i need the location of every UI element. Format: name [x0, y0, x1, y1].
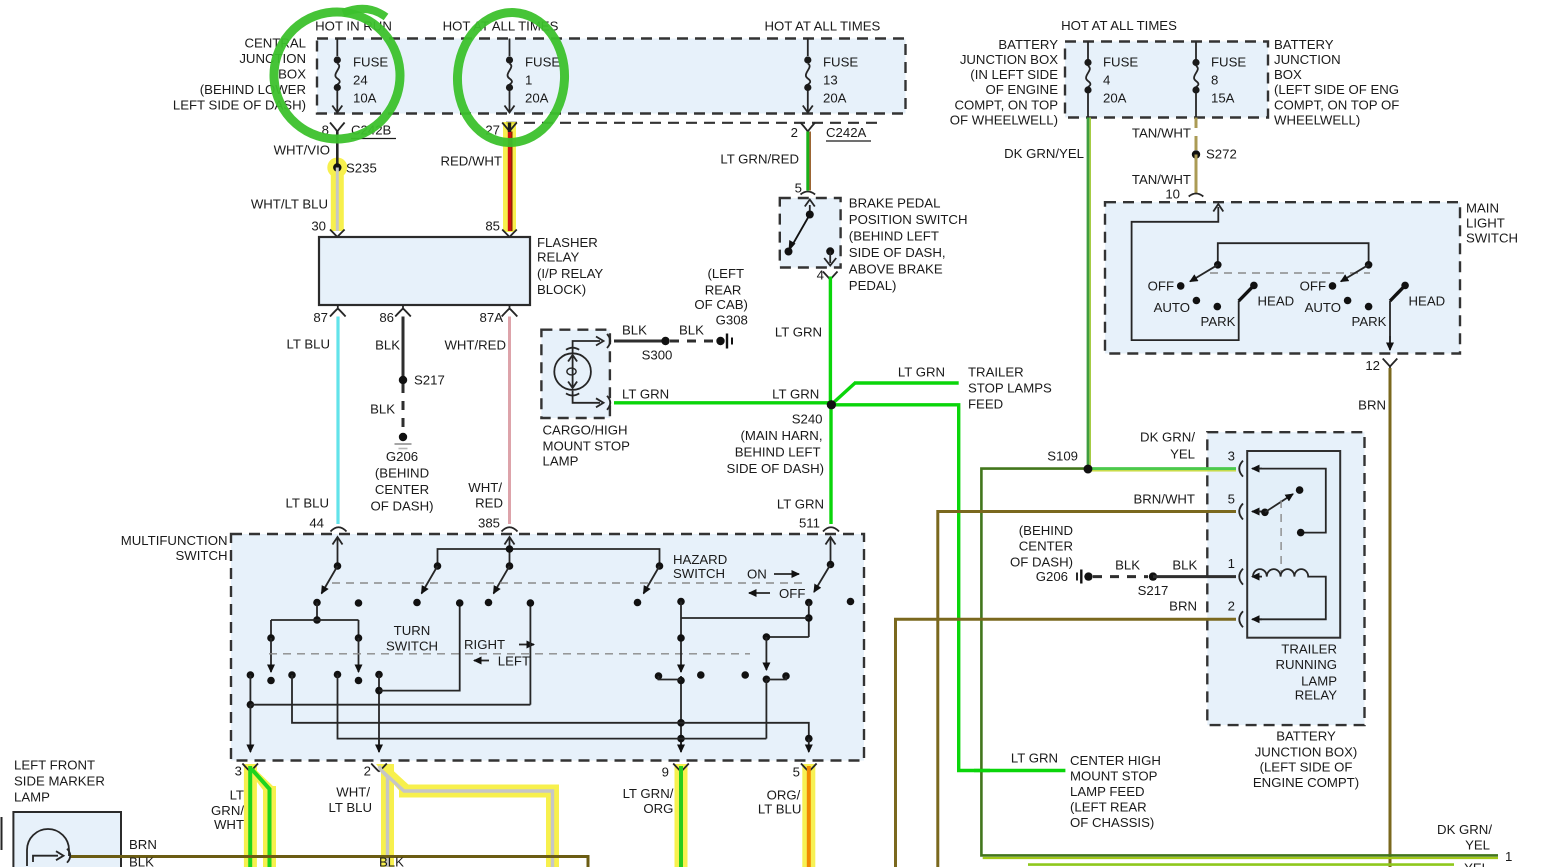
relay pin 2 connector — [1228, 599, 1262, 628]
svg-text:ORG: ORG — [643, 801, 673, 816]
MLS section 2 off blade — [1341, 261, 1373, 282]
MFS pin 3 drop with bus — [247, 599, 535, 752]
svg-text:BRN: BRN — [1169, 599, 1197, 614]
cargo/high mount stop lamp box — [541, 330, 610, 418]
splice dot S109 repaint — [1084, 465, 1093, 474]
svg-text:COMPT, ON TOP OF: COMPT, ON TOP OF — [1274, 98, 1399, 113]
svg-text:YEL: YEL — [1464, 861, 1489, 867]
svg-text:SWITCH: SWITCH — [175, 548, 227, 563]
svg-text:HEAD: HEAD — [1409, 294, 1446, 309]
splice S217 right — [1138, 572, 1169, 598]
MFS cross wire y738.6 — [338, 675, 767, 739]
svg-text:RUNNING: RUNNING — [1275, 657, 1337, 672]
svg-text:20A: 20A — [823, 91, 847, 106]
svg-text:(BEHIND LOWER: (BEHIND LOWER — [200, 82, 306, 97]
svg-text:ENGINE COMPT): ENGINE COMPT) — [1253, 775, 1359, 790]
MFS hazard drop x766 — [763, 637, 771, 739]
MFS contact dot far right — [847, 598, 855, 606]
svg-text:24: 24 — [353, 73, 368, 88]
svg-text:1: 1 — [525, 73, 532, 88]
MLS section 2 labels — [1300, 279, 1446, 329]
wire BLK S217 to G206 (dashed) — [370, 384, 403, 433]
svg-text:LAMP FEED: LAMP FEED — [1070, 784, 1145, 799]
svg-text:85: 85 — [485, 219, 500, 234]
side marker lamp symbol — [27, 829, 70, 866]
svg-text:44: 44 — [309, 516, 324, 531]
label RIGHT with arrow — [464, 637, 534, 652]
svg-text:LT GRN/RED: LT GRN/RED — [720, 152, 799, 167]
svg-text:BLK: BLK — [1172, 558, 1197, 573]
svg-text:FEED: FEED — [968, 397, 1003, 412]
wire WHT/LT BLU from pin 2 — [329, 766, 553, 867]
svg-text:LT: LT — [230, 788, 244, 803]
fuse 4 20A — [1084, 42, 1138, 118]
svg-text:S217: S217 — [1138, 583, 1169, 598]
svg-text:G308: G308 — [716, 312, 748, 327]
svg-text:AUTO: AUTO — [1154, 300, 1190, 315]
wire DK GRN/YEL S109 to relay pin 3 — [1088, 430, 1236, 471]
MFS node A to bus — [271, 603, 359, 624]
connector 27 — [485, 123, 516, 138]
wire BLK cargo lamp to S300 — [614, 323, 662, 342]
svg-text:12: 12 — [1365, 358, 1380, 373]
svg-text:LAMP: LAMP — [14, 790, 50, 805]
wire BLK S300 to G308 (dashed) — [670, 323, 714, 342]
label brake pedal position switch — [849, 196, 968, 294]
splice S109 — [1047, 449, 1092, 474]
splice S235 — [333, 161, 377, 176]
svg-text:LT GRN: LT GRN — [772, 387, 819, 402]
svg-text:OF DASH): OF DASH) — [370, 499, 433, 514]
yellow highlight on pin3 LT GRN/WHT wires — [244, 764, 276, 867]
svg-text:OFF: OFF — [1300, 279, 1326, 294]
cargo/high mount stop lamp bulb — [554, 334, 610, 410]
svg-text:OFF: OFF — [779, 586, 805, 601]
wire DK GRN/YEL S109 branch to trailer feed 1 — [981, 469, 1512, 864]
wire crossing patch LT GRN over DK GRN — [974, 769, 990, 772]
label central junction box — [173, 36, 306, 113]
svg-text:OF CHASSIS): OF CHASSIS) — [1070, 815, 1154, 830]
hand-drawn green circle around fuse 1 — [454, 10, 568, 145]
svg-text:LIGHT: LIGHT — [1466, 216, 1505, 231]
trailer running lamp relay inner body — [1247, 451, 1340, 638]
svg-text:HEAD: HEAD — [1258, 294, 1295, 309]
svg-text:JUNCTION: JUNCTION — [1274, 52, 1341, 67]
wire BLK S217 to relay pin 1 — [1153, 558, 1236, 577]
wire LT GRN/WHT from pin 3 — [211, 766, 269, 867]
svg-text:87: 87 — [313, 310, 328, 325]
central junction box outline — [317, 39, 906, 114]
svg-text:4: 4 — [1103, 73, 1110, 88]
trailer running lamp relay outer box — [1207, 432, 1364, 725]
label HOT AT ALL TIMES (fuse 13) — [764, 19, 880, 34]
MFS stub contacts right of x766 — [766, 672, 789, 680]
svg-text:(LEFT REAR: (LEFT REAR — [1070, 800, 1147, 815]
wire LT GRN/RED to brake switch pin 5 — [720, 132, 815, 196]
svg-text:WHT/LT BLU: WHT/LT BLU — [251, 197, 328, 212]
brake pedal position switch internals — [785, 200, 837, 266]
MFS turn blade C — [485, 562, 514, 606]
MLS section 2 head blade — [1390, 285, 1405, 301]
svg-text:MOUNT STOP: MOUNT STOP — [543, 439, 631, 454]
svg-text:SIDE MARKER: SIDE MARKER — [14, 774, 105, 789]
label battery junction box right — [1274, 37, 1399, 128]
svg-text:4: 4 — [817, 268, 824, 283]
relay switch blade — [1258, 486, 1303, 516]
wire BRN main light switch pin 12 down — [1358, 368, 1390, 867]
MFS contact dot right of blade A — [355, 599, 363, 607]
flasher relay box — [319, 237, 530, 305]
wire LT GRN S240 to MFS 511 — [777, 405, 839, 532]
svg-text:2: 2 — [791, 125, 798, 140]
MLS pin 10 entry arrow — [1132, 204, 1239, 340]
svg-text:LAMP: LAMP — [1301, 673, 1337, 688]
svg-text:86: 86 — [379, 310, 394, 325]
svg-text:HAZARD: HAZARD — [673, 552, 727, 567]
MFS left bus drop 2 — [355, 620, 363, 684]
svg-text:SWITCH: SWITCH — [1466, 231, 1518, 246]
svg-text:C242A: C242A — [826, 125, 867, 140]
svg-text:10: 10 — [1165, 187, 1180, 202]
label multifunction switch — [121, 533, 228, 563]
svg-text:FLASHER: FLASHER — [537, 235, 598, 250]
svg-text:S109: S109 — [1047, 449, 1078, 464]
fuse 24 10A — [332, 39, 388, 113]
wire BLK labels at bottom edge — [129, 855, 404, 867]
svg-text:FUSE: FUSE — [1211, 55, 1246, 70]
label HOT AT ALL TIMES (battery box) — [1061, 18, 1177, 33]
splice S300 — [642, 337, 673, 363]
svg-text:CARGO/HIGH: CARGO/HIGH — [543, 423, 628, 438]
wire WHT/VIO — [274, 132, 338, 165]
svg-text:TRAILER: TRAILER — [968, 365, 1024, 380]
fuse 13 20A — [803, 39, 859, 113]
wire LT GRN S240 to center high mount stop lamp feed — [831, 405, 1160, 830]
wire WHT/LT BLU to flasher pin 30 — [251, 168, 345, 238]
svg-text:S300: S300 — [642, 348, 673, 363]
svg-text:BOX: BOX — [278, 67, 306, 82]
MFS pin 385 entry arrow — [505, 537, 515, 566]
svg-text:FUSE: FUSE — [353, 55, 388, 70]
svg-text:ON: ON — [747, 567, 767, 582]
svg-text:SIDE OF DASH): SIDE OF DASH) — [727, 461, 824, 476]
svg-text:(BEHIND: (BEHIND — [1019, 523, 1073, 538]
label HOT IN RUN — [315, 19, 392, 34]
svg-text:1: 1 — [1228, 556, 1235, 571]
svg-text:G206: G206 — [386, 449, 418, 464]
svg-text:S240: S240 — [792, 412, 823, 427]
svg-text:TURN: TURN — [394, 623, 431, 638]
yellow highlight on pin9 LT GRN/ORG wire — [675, 764, 688, 867]
wire BLK G206 to S217 (dashed) — [1093, 558, 1148, 577]
svg-text:DK GRN/: DK GRN/ — [1140, 430, 1195, 445]
ground G308 (left rear of cab) — [694, 266, 747, 349]
svg-text:2: 2 — [364, 764, 371, 779]
left front side marker lamp box — [13, 812, 121, 867]
wire BLK flasher 86 to S217 — [375, 317, 403, 377]
svg-text:(MAIN HARN,: (MAIN HARN, — [740, 428, 822, 443]
svg-text:RED: RED — [475, 496, 503, 511]
svg-text:LT GRN: LT GRN — [775, 325, 822, 340]
wire BRN/WHT to relay pin 5 — [938, 492, 1236, 867]
svg-text:BRAKE PEDAL: BRAKE PEDAL — [849, 196, 941, 211]
MFS pin 44 entry arrow — [333, 537, 343, 566]
svg-text:MOUNT STOP: MOUNT STOP — [1070, 769, 1158, 784]
svg-text:10A: 10A — [353, 91, 377, 106]
svg-text:COMPT, ON TOP: COMPT, ON TOP — [954, 98, 1058, 113]
svg-text:BATTERY: BATTERY — [1276, 729, 1336, 744]
svg-text:LT BLU: LT BLU — [286, 496, 330, 511]
MFS pin 9 connector — [662, 764, 689, 780]
svg-text:RELAY: RELAY — [1295, 688, 1337, 703]
svg-text:MAIN: MAIN — [1466, 201, 1499, 216]
wire ORG/LT BLU from pin 5 — [758, 766, 809, 867]
svg-text:BLK: BLK — [1115, 558, 1140, 573]
relay pin 3 connector — [1228, 449, 1262, 477]
svg-text:87A: 87A — [480, 310, 504, 325]
MFS pin 2 connector — [364, 764, 387, 779]
MFS pin 511 entry arrow — [826, 537, 836, 565]
MFS left bus drop 1 — [267, 620, 275, 684]
svg-text:FUSE: FUSE — [1103, 55, 1138, 70]
svg-text:AUTO: AUTO — [1305, 300, 1341, 315]
MLS pin 12 exit arrow — [1365, 301, 1397, 373]
flasher pin 87A connector — [480, 305, 518, 325]
flasher pin 87 connector — [313, 305, 345, 325]
svg-text:WHT/: WHT/ — [336, 785, 370, 800]
svg-text:S272: S272 — [1206, 147, 1237, 162]
svg-text:LAMP: LAMP — [543, 454, 579, 469]
splice S240 — [727, 400, 836, 476]
svg-text:BRN: BRN — [129, 837, 157, 852]
svg-text:LEFT FRONT: LEFT FRONT — [14, 758, 95, 773]
MFS top link bus — [438, 549, 660, 566]
svg-text:(BEHIND LEFT: (BEHIND LEFT — [849, 229, 939, 244]
svg-text:REAR: REAR — [705, 283, 742, 298]
svg-text:G206: G206 — [1036, 569, 1068, 584]
svg-text:DK GRN/: DK GRN/ — [1437, 822, 1492, 837]
wire BRN from side marker lamp — [71, 837, 588, 867]
svg-text:(LEFT SIDE OF: (LEFT SIDE OF — [1260, 760, 1353, 775]
svg-text:ABOVE BRAKE: ABOVE BRAKE — [849, 262, 943, 277]
svg-text:(BEHIND: (BEHIND — [375, 466, 429, 481]
MLS section 2 contacts — [1329, 282, 1409, 311]
label turn switch — [386, 623, 438, 654]
svg-text:BLK: BLK — [129, 855, 154, 867]
MFS dashed detent line lower — [269, 653, 750, 655]
svg-text:20A: 20A — [525, 91, 549, 106]
svg-text:FUSE: FUSE — [823, 55, 858, 70]
connector row C242 dashed line — [506, 122, 881, 124]
svg-text:S217: S217 — [414, 373, 445, 388]
battery junction box (engine compt) outline — [1065, 42, 1268, 118]
fuse 1 20A — [505, 39, 561, 113]
svg-text:9: 9 — [662, 765, 669, 780]
svg-text:511: 511 — [799, 516, 820, 531]
svg-text:(IN LEFT SIDE: (IN LEFT SIDE — [970, 67, 1058, 82]
flasher pin 86 connector — [379, 305, 410, 325]
svg-text:RELAY: RELAY — [537, 250, 579, 265]
svg-text:YEL: YEL — [1465, 838, 1490, 853]
svg-text:DK GRN/YEL: DK GRN/YEL — [1004, 146, 1084, 161]
svg-text:JUNCTION BOX): JUNCTION BOX) — [1255, 745, 1358, 760]
MLS section 1 labels — [1148, 279, 1295, 329]
wire LT GRN brake switch to S240 — [775, 277, 831, 406]
svg-text:JUNCTION BOX: JUNCTION BOX — [960, 52, 1058, 67]
wire YEL lower trailer feed — [1028, 861, 1489, 867]
MFS pin 2 drop with right feed — [375, 599, 463, 752]
MFS cross wire y722.8 to pin 5 — [292, 675, 813, 752]
svg-text:HOT AT ALL TIMES: HOT AT ALL TIMES — [1061, 18, 1177, 33]
multifunction switch box — [231, 534, 864, 761]
svg-text:BLK: BLK — [679, 323, 704, 338]
yellow highlight on pin2 WHT/LT BLU wire — [376, 764, 559, 867]
svg-text:S235: S235 — [346, 161, 377, 176]
label battery junction box left — [950, 37, 1058, 128]
svg-text:SWITCH: SWITCH — [673, 566, 725, 581]
svg-text:BLK: BLK — [375, 338, 400, 353]
wire TAN/WHT S272 to main light switch pin 10 — [1132, 155, 1203, 202]
svg-text:5: 5 — [1228, 492, 1235, 507]
main light switch box — [1105, 202, 1460, 353]
svg-text:LT GRN: LT GRN — [622, 386, 669, 401]
svg-text:CENTER HIGH: CENTER HIGH — [1070, 753, 1161, 768]
svg-text:30: 30 — [311, 219, 326, 234]
svg-text:1: 1 — [1505, 849, 1512, 864]
svg-text:CENTER: CENTER — [375, 482, 429, 497]
label battery junction box (left side of engine compt) — [1253, 729, 1359, 791]
MFS turn blade B — [413, 562, 441, 606]
label left front side marker lamp — [14, 758, 105, 805]
svg-text:13: 13 — [823, 73, 838, 88]
svg-text:BRN: BRN — [1358, 398, 1386, 413]
svg-text:PARK: PARK — [1201, 314, 1236, 329]
brake switch pin 4 connector — [817, 268, 838, 283]
svg-text:385: 385 — [478, 516, 500, 531]
svg-text:OF DASH): OF DASH) — [1010, 555, 1073, 570]
MLS bridge bus — [1218, 243, 1369, 265]
MFS hazard drop x681 to pin 9 — [677, 598, 685, 752]
MFS stub contacts left of x681 — [655, 672, 681, 680]
svg-text:SWITCH: SWITCH — [386, 639, 438, 654]
label cargo/high mount stop lamp — [543, 423, 631, 469]
label HOT AT ALL TIMES (fuse 1) — [443, 19, 559, 34]
svg-text:SIDE OF DASH,: SIDE OF DASH, — [849, 245, 946, 260]
wire LT GRN/ORG from pin 9 — [623, 766, 681, 867]
connector C242B pin 8 — [322, 123, 396, 139]
svg-text:OFF: OFF — [1148, 279, 1174, 294]
svg-text:LEFT: LEFT — [498, 654, 530, 669]
svg-text:HOT AT ALL TIMES: HOT AT ALL TIMES — [764, 19, 880, 34]
svg-text:15A: 15A — [1211, 91, 1235, 106]
wire WHT/RED flasher 87A to MFS 385 — [444, 317, 517, 532]
svg-text:LT GRN: LT GRN — [1011, 751, 1058, 766]
ground G206 (behind center of dash) — [370, 433, 433, 514]
svg-text:MULTIFUNCTION: MULTIFUNCTION — [121, 533, 228, 548]
label OFF with arrow — [749, 586, 805, 601]
MFS blade E drop and links — [681, 603, 813, 641]
svg-text:LT BLU: LT BLU — [287, 337, 331, 352]
wire DK GRN/YEL fuse 4 to S109 — [1004, 118, 1090, 470]
svg-text:(LEFT SIDE OF ENG: (LEFT SIDE OF ENG — [1274, 82, 1399, 97]
svg-text:BLK: BLK — [622, 323, 647, 338]
relay actuator dashed link — [1280, 500, 1282, 572]
relay pin 1 connector — [1228, 556, 1262, 585]
svg-text:STOP LAMPS: STOP LAMPS — [968, 381, 1052, 396]
svg-text:PARK: PARK — [1352, 314, 1387, 329]
MFS output row dots — [247, 671, 383, 679]
wire TAN/WHT fuse 8 to S272 — [1132, 118, 1196, 151]
yellow highlight on WHT/LT BLU wire — [327, 158, 347, 232]
svg-text:8: 8 — [1211, 73, 1218, 88]
svg-text:LT GRN: LT GRN — [898, 365, 945, 380]
svg-text:BRN/WHT: BRN/WHT — [1133, 492, 1195, 507]
MFS hazard blade E — [805, 561, 834, 607]
svg-text:BOX: BOX — [1274, 67, 1302, 82]
yellow highlight on RED/WHT wire — [503, 122, 516, 232]
svg-text:TAN/WHT: TAN/WHT — [1132, 172, 1191, 187]
MFS dashed detent line upper — [332, 582, 808, 584]
ground G206 (behind center of dash) right — [1010, 523, 1093, 584]
svg-text:LT GRN/: LT GRN/ — [623, 786, 674, 801]
label trailer running lamp relay — [1275, 641, 1337, 702]
svg-text:BLOCK): BLOCK) — [537, 282, 586, 297]
svg-text:POSITION SWITCH: POSITION SWITCH — [849, 212, 968, 227]
svg-text:WHT/VIO: WHT/VIO — [274, 143, 330, 158]
svg-text:(LEFT: (LEFT — [707, 266, 744, 281]
svg-text:WHT/RED: WHT/RED — [444, 338, 506, 353]
hand-drawn green circle around fuse 24 — [270, 8, 405, 143]
wire LT GRN trailer stop lamps feed — [833, 365, 1053, 412]
svg-text:PEDAL): PEDAL) — [849, 278, 897, 293]
brake pedal position switch box — [780, 198, 841, 268]
MLS section 1 head blade — [1239, 285, 1254, 301]
MLS detent dashed line — [1210, 272, 1370, 274]
label flasher relay — [537, 235, 603, 297]
svg-text:OF CAB): OF CAB) — [694, 297, 747, 312]
MFS pin 5 connector — [793, 764, 817, 780]
MLS section 1 contacts — [1177, 282, 1258, 311]
splice dot S240 repaint — [827, 400, 836, 409]
svg-text:BATTERY: BATTERY — [998, 37, 1058, 52]
svg-text:RIGHT: RIGHT — [464, 637, 505, 652]
fuse 8 15A — [1192, 42, 1246, 118]
label LEFT with arrow — [474, 654, 530, 669]
relay pin 3 to fixed contact — [1258, 469, 1326, 537]
svg-text:WHT/: WHT/ — [468, 480, 502, 495]
partial connector at left edge — [1, 817, 3, 850]
svg-text:2: 2 — [1228, 599, 1235, 614]
svg-text:TRAILER: TRAILER — [1281, 641, 1337, 656]
connector C242A pin 2 — [791, 123, 871, 142]
svg-text:LT BLU: LT BLU — [329, 800, 373, 815]
svg-text:YEL: YEL — [1170, 447, 1195, 462]
label hazard switch — [673, 552, 727, 581]
yellow highlight on pin5 ORG/LT BLU wire — [802, 764, 815, 867]
svg-text:(I/P RELAY: (I/P RELAY — [537, 266, 603, 281]
MFS turn blade A — [313, 562, 341, 606]
MFS hazard blade D — [634, 562, 664, 606]
svg-text:OF ENGINE: OF ENGINE — [985, 82, 1058, 97]
MLS section 1 off blade — [1190, 261, 1222, 282]
splice S217 — [399, 373, 445, 388]
splice S272 — [1192, 147, 1237, 162]
svg-text:BEHIND LEFT: BEHIND LEFT — [735, 445, 821, 460]
relay pin 5 connector — [1228, 492, 1262, 520]
wire LT GRN cargo lamp to S240 — [614, 386, 831, 402]
svg-text:RED/WHT: RED/WHT — [440, 154, 502, 169]
relay coil — [1253, 569, 1326, 619]
